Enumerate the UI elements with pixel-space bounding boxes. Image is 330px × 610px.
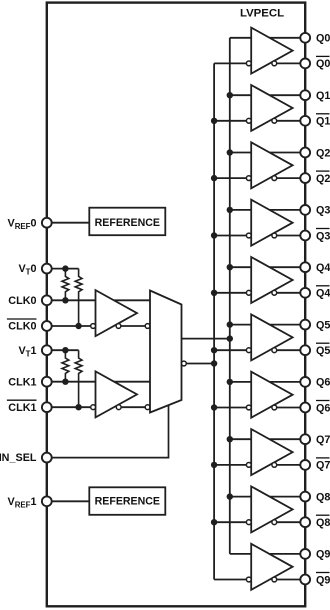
wire: bus A to driver 6 true input bbox=[230, 381, 251, 383]
inverting bubble: buffer 0 complement output bbox=[116, 324, 121, 329]
wire: bus B to driver 1 complement input bbox=[214, 120, 246, 122]
pin Q1bar bbox=[300, 116, 310, 126]
junction: resistor / CLK0 line bbox=[62, 297, 68, 303]
pin CLK1bar bbox=[42, 402, 52, 412]
svg-text:Q9: Q9 bbox=[316, 574, 330, 586]
pin Q8 bbox=[300, 492, 310, 502]
junction: bus B tap for driver 3 bbox=[211, 232, 217, 238]
inverting bubble: buffer 1 complement input bbox=[91, 405, 96, 410]
junction: resistor / CLK1 line bbox=[62, 379, 68, 385]
output driver U10 (LVPECL) for Q6 bbox=[251, 372, 292, 418]
junction: bus A tap for driver 4 bbox=[227, 264, 233, 270]
pin Q5 bbox=[300, 320, 310, 330]
svg-text:CLK1: CLK1 bbox=[8, 376, 36, 388]
wire: pin CLK1 to input buffer bbox=[52, 381, 96, 383]
wire: pin VREF0 to reference block bbox=[52, 222, 90, 224]
wire: driver 1 complement output to pin Q1bar bbox=[277, 120, 301, 122]
wire: buffer 0 complement output to mux bbox=[121, 325, 145, 327]
pin Q6 bbox=[300, 377, 310, 387]
input buffer U2 (CLK1/CLK1bar receiver) bbox=[96, 371, 138, 417]
inverting bubble: mux complement input (channel 1) bbox=[145, 405, 150, 410]
output driver U7 (LVPECL) for Q3 bbox=[251, 200, 292, 246]
wire: bus A to driver 1 true input bbox=[230, 94, 251, 96]
inverting bubble: driver 1 complement output bbox=[272, 118, 277, 123]
wire: mux true output to bus A bbox=[182, 338, 230, 340]
junction: bus A tap for driver 7 bbox=[227, 436, 233, 442]
IC boundary box bbox=[47, 3, 305, 607]
junction: bus B tap for driver 1 bbox=[211, 118, 217, 124]
wire: true-signal bus (bus A) bbox=[229, 38, 231, 554]
output driver U9 (LVPECL) for Q5 bbox=[251, 314, 292, 360]
wire: driver 6 complement output to pin Q6bar bbox=[277, 407, 301, 409]
wire: VT0 node bbox=[52, 268, 79, 270]
wire: buffer 0 true output to mux bbox=[114, 299, 150, 301]
junction: bus A tap for driver 1 bbox=[227, 92, 233, 98]
pin Q2 bbox=[300, 148, 310, 158]
wire: bus B to driver 3 complement input bbox=[214, 235, 246, 237]
wire: bus A to driver 5 true input bbox=[230, 324, 251, 326]
svg-text:Q0: Q0 bbox=[316, 58, 330, 70]
wire: bus B to driver 0 complement input bbox=[214, 62, 246, 64]
output driver U11 (LVPECL) for Q7 bbox=[251, 429, 292, 475]
svg-text:CLK0: CLK0 bbox=[8, 295, 36, 307]
svg-text:Q7: Q7 bbox=[316, 460, 330, 472]
inverting bubble: driver 0 complement output bbox=[272, 61, 277, 66]
wire: driver 7 complement output to pin Q7bar bbox=[277, 464, 301, 466]
junction: bus A tap for driver 6 bbox=[227, 379, 233, 385]
svg-text:Q3: Q3 bbox=[316, 205, 330, 217]
pin Q6bar bbox=[300, 403, 310, 413]
wire: pin VREF1 to reference block bbox=[52, 500, 90, 502]
output driver U8 (LVPECL) for Q4 bbox=[251, 257, 292, 303]
svg-text:CLK0: CLK0 bbox=[8, 321, 36, 333]
inverting bubble: driver 3 complement input bbox=[246, 233, 251, 238]
inverting bubble: mux complement output bbox=[182, 361, 187, 366]
inverting bubble: mux complement input (channel 0) bbox=[145, 324, 150, 329]
wire: buffer 1 complement output to mux bbox=[121, 406, 145, 408]
pin Q2bar bbox=[300, 173, 310, 183]
wire: driver 0 complement output to pin Q0bar bbox=[277, 62, 301, 64]
mux U3 (2:1 clock input select) bbox=[150, 291, 182, 413]
wire: driver 3 true output to pin Q3 bbox=[270, 209, 301, 211]
wire: bus B to driver 8 complement input bbox=[214, 521, 246, 523]
inverting bubble: driver 5 complement input bbox=[246, 348, 251, 353]
pin Q7 bbox=[300, 434, 310, 444]
pin VT0 bbox=[42, 264, 52, 274]
svg-text:REFERENCE: REFERENCE bbox=[95, 217, 160, 229]
inverting bubble: buffer 1 complement output bbox=[116, 405, 121, 410]
output driver U13 (LVPECL) for Q9 bbox=[251, 544, 292, 590]
wire: driver 7 true output to pin Q7 bbox=[270, 438, 301, 440]
inverting bubble: driver 8 complement output bbox=[272, 520, 277, 525]
pin Q7bar bbox=[300, 460, 310, 470]
pin Q5bar bbox=[300, 345, 310, 355]
inverting bubble: driver 4 complement input bbox=[246, 290, 251, 295]
termination resistor (VT0 to CLK0bar) bbox=[75, 269, 82, 326]
wire: driver 9 complement output to pin Q9bar bbox=[277, 579, 301, 581]
wire: bus A to driver 2 true input bbox=[230, 152, 251, 154]
svg-text:Q7: Q7 bbox=[316, 434, 330, 446]
svg-text:VREF0: VREF0 bbox=[7, 217, 36, 231]
wire: driver 9 true output to pin Q9 bbox=[270, 553, 301, 555]
inverting bubble: driver 6 complement output bbox=[272, 405, 277, 410]
junction: bus B tap for driver 5 bbox=[211, 347, 217, 353]
termination resistor (VT0 to CLK0) bbox=[62, 269, 69, 301]
reference block (channel 0) bbox=[89, 208, 165, 236]
inverting bubble: driver 9 complement input bbox=[246, 577, 251, 582]
pin Q9bar bbox=[300, 575, 310, 585]
wire: complement-signal bus (bus B) bbox=[213, 63, 215, 579]
wire: bus B to driver 2 complement input bbox=[214, 177, 246, 179]
inverting bubble: driver 2 complement output bbox=[272, 176, 277, 181]
wire: driver 2 complement output to pin Q2bar bbox=[277, 177, 301, 179]
pin VREF1 bbox=[42, 496, 52, 506]
junction: bus A tap for driver 2 bbox=[227, 149, 233, 155]
pin Q9 bbox=[300, 549, 310, 559]
svg-text:Q8: Q8 bbox=[316, 517, 330, 529]
wire: bus B to driver 7 complement input bbox=[214, 464, 246, 466]
inverting bubble: driver 0 complement input bbox=[246, 61, 251, 66]
svg-text:REFERENCE: REFERENCE bbox=[95, 496, 160, 508]
output driver U12 (LVPECL) for Q8 bbox=[251, 486, 292, 532]
svg-text:Q4: Q4 bbox=[316, 288, 330, 300]
wire: VT1 node bbox=[52, 349, 79, 351]
svg-text:Q8: Q8 bbox=[316, 491, 330, 503]
pin Q4bar bbox=[300, 288, 310, 298]
svg-text:Q4: Q4 bbox=[316, 262, 330, 274]
inverting bubble: driver 4 complement output bbox=[272, 290, 277, 295]
wire: bus B to driver 4 complement input bbox=[214, 292, 246, 294]
wire: driver 4 complement output to pin Q4bar bbox=[277, 292, 301, 294]
junction: bus B tap for driver 4 bbox=[211, 290, 217, 296]
svg-text:VT1: VT1 bbox=[18, 345, 36, 359]
junction: bus A tap for driver 8 bbox=[227, 493, 233, 499]
wire: bus A to driver 8 true input bbox=[230, 496, 251, 498]
pin Q3 bbox=[300, 205, 310, 215]
wire: bus B to driver 9 complement input bbox=[214, 579, 246, 581]
termination resistor (VT1 to CLK1) bbox=[62, 350, 69, 382]
svg-text:VREF1: VREF1 bbox=[7, 496, 36, 510]
input buffer U1 (CLK0/CLK0bar receiver) bbox=[96, 290, 138, 336]
wire: driver 5 true output to pin Q5 bbox=[270, 324, 301, 326]
wire: driver 2 true output to pin Q2 bbox=[270, 152, 301, 154]
inverting bubble: driver 8 complement input bbox=[246, 520, 251, 525]
junction: mux complement output / bus B bbox=[211, 360, 217, 366]
wire: bus B to driver 6 complement input bbox=[214, 407, 246, 409]
wire: mux complement output to bus B bbox=[186, 363, 214, 365]
junction: resistor / CLK1bar line bbox=[75, 404, 81, 410]
wire: driver 5 complement output to pin Q5bar bbox=[277, 349, 301, 351]
junction: resistor / CLK0bar line bbox=[75, 323, 81, 329]
wire: bus A to driver 3 true input bbox=[230, 209, 251, 211]
wire: pin IN_SEL to mux select input bbox=[52, 405, 169, 457]
junction: bus A tap for driver 5 bbox=[227, 321, 233, 327]
svg-text:Q1: Q1 bbox=[316, 116, 330, 128]
inverting bubble: driver 5 complement output bbox=[272, 348, 277, 353]
svg-text:Q1: Q1 bbox=[316, 90, 330, 102]
svg-text:Q9: Q9 bbox=[316, 549, 330, 561]
wire: driver 4 true output to pin Q4 bbox=[270, 266, 301, 268]
junction: bus A tap for driver 3 bbox=[227, 207, 233, 213]
inverting bubble: driver 7 complement output bbox=[272, 463, 277, 468]
pin VREF0 bbox=[42, 218, 52, 228]
wire: pin CLK0 to input buffer bbox=[52, 299, 96, 301]
wire: bus B to driver 5 complement input bbox=[214, 349, 246, 351]
wire: driver 0 true output to pin Q0 bbox=[270, 37, 301, 39]
pin CLK0 bbox=[42, 295, 52, 305]
pin Q0 bbox=[300, 33, 310, 43]
wire: pin CLK1bar to input buffer bbox=[52, 406, 91, 408]
wire: buffer 1 true output to mux bbox=[114, 381, 150, 383]
wire: driver 8 true output to pin Q8 bbox=[270, 496, 301, 498]
svg-text:Q5: Q5 bbox=[316, 319, 330, 331]
pin Q4 bbox=[300, 262, 310, 272]
termination resistor (VT1 to CLK1bar) bbox=[75, 350, 82, 407]
inverting bubble: driver 3 complement output bbox=[272, 233, 277, 238]
junction: bus B tap for driver 8 bbox=[211, 519, 217, 525]
wire: bus A to driver 7 true input bbox=[230, 438, 251, 440]
pin Q3bar bbox=[300, 231, 310, 241]
svg-text:Q2: Q2 bbox=[316, 147, 330, 159]
output driver U4 (LVPECL) for Q0 bbox=[251, 28, 292, 74]
wire: driver 3 complement output to pin Q3bar bbox=[277, 235, 301, 237]
svg-text:Q2: Q2 bbox=[316, 173, 330, 185]
pin CLK0bar bbox=[42, 321, 52, 331]
pin Q1 bbox=[300, 90, 310, 100]
wire: driver 6 true output to pin Q6 bbox=[270, 381, 301, 383]
svg-text:CLK1: CLK1 bbox=[8, 402, 36, 414]
svg-text:Q0: Q0 bbox=[316, 33, 330, 45]
pin Q8bar bbox=[300, 517, 310, 527]
inverting bubble: buffer 0 complement input bbox=[91, 324, 96, 329]
reference block (channel 1) bbox=[89, 487, 165, 515]
inverting bubble: driver 7 complement input bbox=[246, 463, 251, 468]
junction: bus B tap for driver 7 bbox=[211, 462, 217, 468]
pin Q0bar bbox=[300, 59, 310, 69]
wire: driver 8 complement output to pin Q8bar bbox=[277, 521, 301, 523]
svg-text:Q6: Q6 bbox=[316, 377, 330, 389]
svg-text:Q3: Q3 bbox=[316, 230, 330, 242]
inverting bubble: driver 1 complement input bbox=[246, 118, 251, 123]
svg-text:VT0: VT0 bbox=[18, 263, 36, 277]
junction: bus B tap for driver 6 bbox=[211, 404, 217, 410]
inverting bubble: driver 2 complement input bbox=[246, 176, 251, 181]
wire: bus A to driver 0 true input bbox=[230, 37, 251, 39]
svg-text:Q5: Q5 bbox=[316, 345, 330, 357]
wire: bus A to driver 9 true input bbox=[230, 553, 251, 555]
svg-text:IN_SEL: IN_SEL bbox=[0, 452, 37, 464]
inverting bubble: driver 9 complement output bbox=[272, 577, 277, 582]
pin VT1 bbox=[42, 345, 52, 355]
output driver U6 (LVPECL) for Q2 bbox=[251, 142, 292, 188]
pin CLK1 bbox=[42, 377, 52, 387]
junction: VT0 / termination resistor bbox=[62, 265, 68, 271]
output driver U5 (LVPECL) for Q1 bbox=[251, 85, 292, 131]
svg-text:Q6: Q6 bbox=[316, 402, 330, 414]
junction: bus B tap for driver 2 bbox=[211, 175, 217, 181]
wire: bus A to driver 4 true input bbox=[230, 266, 251, 268]
wire: pin CLK0bar to input buffer bbox=[52, 325, 91, 327]
svg-text:LVPECL: LVPECL bbox=[240, 8, 284, 20]
inverting bubble: driver 6 complement input bbox=[246, 405, 251, 410]
junction: mux true output / bus A bbox=[227, 335, 233, 341]
pin IN_SEL bbox=[42, 453, 52, 463]
junction: VT1 / termination resistor bbox=[62, 347, 68, 353]
wire: driver 1 true output to pin Q1 bbox=[270, 94, 301, 96]
